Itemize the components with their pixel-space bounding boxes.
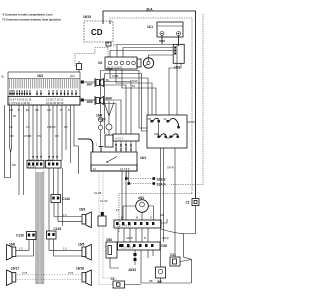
CD changer 16/15 — [83, 15, 113, 42]
tweeter 16/8 — [95, 96, 121, 134]
svg-text:GR-R: GR-R — [162, 236, 169, 240]
wire relay to right feed — [187, 121, 196, 123]
svg-text:C1: C1 — [111, 277, 115, 281]
thick lead into amplifier — [78, 139, 93, 152]
svg-text:BL: BL — [26, 108, 30, 112]
svg-text:0.5: 0.5 — [64, 125, 68, 129]
svg-text:GR: GR — [47, 108, 51, 112]
speaker 16/3 — [54, 203, 91, 228]
speaker 16/18 — [76, 267, 91, 286]
connector C1 bottom — [111, 277, 142, 288]
svg-text:1 2 3 4: 1 2 3 4 — [28, 164, 36, 168]
speaker 16/17 — [7, 267, 20, 286]
svg-text:1 2 3 4 5 6 7: 1 2 3 4 5 6 7 — [117, 224, 132, 228]
svg-text:16/18: 16/18 — [76, 267, 84, 271]
svg-text:11/1: 11/1 — [147, 25, 153, 29]
wire fuse to connector 15/1 — [178, 36, 180, 47]
svg-text:C145: C145 — [54, 227, 62, 231]
svg-text:SB: SB — [12, 163, 16, 167]
connector strip L1 — [27, 160, 44, 168]
svg-text:16/7: 16/7 — [87, 83, 93, 87]
svg-text:16/17: 16/17 — [11, 267, 19, 271]
wire size labels under 16/2 — [9, 108, 70, 138]
radio pin comb — [10, 79, 78, 89]
svg-text:0.5: 0.5 — [26, 125, 30, 129]
switch 3/52 — [106, 238, 119, 268]
svg-text:0.5: 0.5 — [10, 134, 14, 138]
svg-text:15I: 15I — [148, 117, 152, 121]
svg-text:M: M — [136, 216, 138, 220]
screened cable band — [36, 169, 45, 285]
svg-text:16/3: 16/3 — [79, 208, 85, 212]
svg-text:SB: SB — [35, 108, 39, 112]
svg-text:R: R — [144, 236, 146, 240]
wires 15/1 down to relay — [169, 64, 181, 116]
svg-text:4 6 8: 4 6 8 — [48, 159, 54, 163]
svg-text:C98: C98 — [161, 244, 167, 248]
svg-text:BL: BL — [106, 78, 110, 82]
svg-text:16/8: 16/8 — [87, 100, 93, 104]
wire CD branch to radio top (dashed) — [75, 48, 108, 67]
svg-text:31 4 7 6 8 10 12 14: 31 4 7 6 8 10 12 14 — [9, 97, 32, 101]
svg-text:B5: B5 — [158, 280, 162, 284]
svg-text:1 2 3 4 5 6: 1 2 3 4 5 6 — [121, 246, 134, 250]
wire relay outputs down — [161, 148, 176, 267]
svg-text:(*): (*) — [113, 43, 116, 47]
svg-text:G: G — [150, 216, 152, 220]
svg-text:22 24 26 28 30: 22 24 26 28 30 — [46, 101, 64, 105]
wire screened antenna lead (dashed) — [110, 18, 192, 194]
svg-text:B: B — [121, 216, 123, 220]
svg-text:0.5R: 0.5R — [50, 125, 56, 129]
ground wire bottom — [141, 250, 192, 283]
svg-text:4R: 4R — [13, 114, 16, 118]
svg-text:R: R — [68, 108, 70, 112]
svg-text:15E: 15E — [154, 132, 159, 136]
wires strip A to strip B — [118, 228, 169, 242]
window antenna wires — [4, 105, 16, 178]
svg-text:C1-C6: C1-C6 — [100, 199, 108, 203]
ground below fuse box — [159, 36, 165, 45]
svg-text:(2a): (2a) — [70, 74, 75, 78]
svg-text:1.5: 1.5 — [63, 213, 67, 217]
svg-text:16/15: 16/15 — [83, 15, 91, 19]
svg-text:16/2: 16/2 — [37, 74, 43, 78]
connector 2a at radio top — [77, 64, 82, 70]
svg-text:S1A:4: S1A:4 — [157, 183, 166, 187]
svg-text:0.5: 0.5 — [37, 134, 41, 138]
wire outer dashed boundary right — [170, 14, 203, 185]
wire CD to ignition switch (dashed) — [107, 46, 109, 57]
antenna symbol — [104, 101, 114, 147]
svg-text:GR-R: GR-R — [124, 144, 128, 151]
wires ignition to 15/1 — [110, 45, 174, 58]
svg-text:CD: CD — [91, 28, 103, 37]
svg-text:J4/33: J4/33 — [128, 268, 136, 272]
svg-text:3/1: 3/1 — [98, 61, 103, 65]
svg-text:GR: GR — [160, 213, 164, 217]
connector * below CD — [106, 42, 116, 47]
svg-text:16/9: 16/9 — [96, 114, 102, 118]
svg-text:16/1: 16/1 — [140, 156, 146, 160]
wire radio pin to connector — [78, 70, 80, 73]
wire L2 to C143 — [53, 168, 55, 195]
dashed link S1B:2 — [125, 177, 166, 182]
svg-text:BL-R: BL-R — [129, 145, 133, 151]
svg-text:S1B:2: S1B:2 — [157, 178, 166, 182]
svg-text:4 3 2 1: 4 3 2 1 — [115, 137, 123, 141]
dashed link S1A:4 — [128, 182, 166, 187]
speaker 16/5 — [63, 243, 91, 261]
wires 16/2 down to connectors — [10, 105, 79, 195]
wire labels above amplifier pins — [104, 96, 112, 100]
svg-text:13 7 8 9: 13 7 8 9 — [120, 167, 130, 171]
svg-text:16/5: 16/5 — [78, 243, 84, 247]
relay box — [147, 115, 187, 148]
svg-text:1.5: 1.5 — [63, 247, 67, 251]
connector strip pin arrows — [32, 156, 58, 159]
svg-text:1 3 5 9 11 2 18 20: 1 3 5 9 11 2 18 20 — [9, 101, 30, 105]
labels tweeters — [81, 81, 95, 105]
svg-text:30 15 31: 30 15 31 — [29, 159, 40, 163]
radio pin arrows — [9, 90, 77, 96]
svg-text:S1-1B: S1-1B — [94, 191, 101, 195]
svg-text:C1: C1 — [186, 201, 190, 205]
wires rear speakers dashed — [16, 271, 82, 279]
svg-text:GR-R: GR-R — [126, 236, 133, 240]
svg-text:SB: SB — [149, 279, 153, 283]
connector strip C98 — [118, 242, 168, 250]
radio pin number strip — [1, 75, 80, 106]
svg-text:R: R — [18, 108, 20, 112]
svg-text:0.5GR: 0.5GR — [104, 96, 112, 100]
connector 15/1 — [173, 44, 184, 69]
svg-text:**) Connector at power antenna: **) Connector at power antenna, 9-pin (j… — [2, 18, 61, 22]
fuse box 11/1 — [147, 22, 183, 37]
radio unit 16/2 — [8, 72, 80, 105]
svg-text:GR-R: GR-R — [167, 166, 174, 170]
svg-text:*) Connector in radio compartm: *) Connector in radio compartment, 1-pin — [2, 13, 53, 17]
svg-text:0.75: 0.75 — [22, 271, 28, 275]
sensor B5 — [156, 267, 166, 284]
svg-text:C139: C139 — [16, 234, 24, 238]
power antenna motor 4/51 — [119, 194, 192, 233]
speaker 16/6 — [7, 243, 24, 261]
inline connector C1 right — [161, 199, 199, 284]
svg-text:0.5SB: 0.5SB — [24, 134, 31, 138]
connector C31 — [170, 253, 192, 266]
svg-text:C31: C31 — [170, 253, 176, 257]
svg-text:30 A: 30 A — [146, 8, 153, 12]
connector C139 — [16, 232, 36, 257]
antenna connector strip A — [114, 216, 161, 229]
wires into strip A top — [105, 74, 168, 224]
svg-text:0.5: 0.5 — [9, 125, 13, 129]
ignition switch 3/1 — [98, 55, 174, 69]
svg-text:GR: GR — [9, 108, 13, 112]
svg-text:3/52: 3/52 — [106, 238, 112, 242]
svg-text:1.5: 1.5 — [19, 247, 23, 251]
wires ignition block down/right bundle — [110, 69, 156, 115]
inline connector J4/33 — [128, 250, 137, 272]
svg-text:0.5BL: 0.5BL — [106, 67, 113, 71]
svg-text:GR-W: GR-W — [114, 143, 118, 151]
svg-text:0.5BL: 0.5BL — [112, 74, 119, 78]
svg-text:13 19 17 15 12: 13 19 17 15 12 — [46, 97, 64, 101]
svg-text:BL-W: BL-W — [119, 144, 123, 151]
screened pair connector left of strip A — [94, 191, 108, 226]
connector strip L2 — [46, 160, 62, 168]
wire L2 to C145 — [48, 168, 50, 231]
connector C143 — [51, 195, 70, 203]
connector C145 — [47, 227, 83, 256]
svg-text:C143: C143 — [62, 197, 70, 201]
wire rail to relay pin 1 — [98, 67, 147, 147]
tweeter 16/7 — [95, 78, 131, 134]
svg-text:0.75: 0.75 — [68, 271, 74, 275]
wires amplifier bottom down — [99, 171, 129, 285]
wire 30-feed top — [103, 11, 196, 199]
svg-text:4/51: 4/51 — [138, 196, 144, 200]
svg-text:0.5: 0.5 — [55, 134, 59, 138]
amplifier 16/1 — [91, 134, 146, 171]
ground 16/9 — [96, 114, 106, 122]
